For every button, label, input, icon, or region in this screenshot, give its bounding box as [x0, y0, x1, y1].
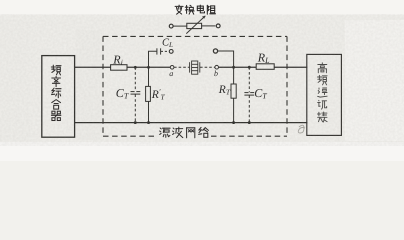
wire: node b to R_L — [219, 66, 257, 68]
terminal circle left (above node a) — [169, 50, 173, 54]
dashed box: filter network boundary — [103, 36, 287, 136]
resistor R_i — [111, 65, 127, 71]
terminal circle: switch resistor right — [216, 24, 220, 28]
wire: R_i to node a — [127, 66, 171, 68]
node b (open circle) — [215, 65, 219, 69]
block: HF transmitter box — [307, 54, 342, 135]
crystal resonator (plate, hatched body, plate) — [190, 61, 200, 74]
label 滤波网络 — [160, 128, 170, 137]
label 高频遥讯装 (vertical) — [318, 63, 327, 73]
variable resistor body (换接电阻) — [187, 23, 202, 28]
junction dots R_T prime — [147, 66, 150, 69]
dashed wire: crystal to node b — [200, 66, 215, 68]
terminal circle right (above node b) — [213, 49, 217, 53]
wire: top rail from synthesizer to R_i — [75, 66, 111, 68]
block: frequency synthesizer box — [42, 56, 75, 138]
junction dots C_T left — [134, 66, 137, 69]
node a (open circle) — [170, 66, 174, 70]
wire: right terminal L-shape down to rail — [218, 51, 234, 67]
scan paper background — [0, 0, 404, 161]
wire from variable resistor — [202, 25, 216, 27]
junction dots C_T right — [248, 66, 251, 69]
resistor R_L — [256, 64, 274, 70]
junction dots R_T — [232, 66, 235, 69]
arrow across variable resistor — [186, 16, 205, 34]
terminal circle: switch resistor left — [169, 24, 173, 28]
wire: bottom rail — [75, 122, 308, 124]
scan smudge mark — [298, 125, 305, 133]
capacitor C_T (right) branch, dashed leads — [244, 67, 254, 122]
resistor R&#39;_T branch — [146, 67, 151, 122]
dashed wire: node a to crystal — [174, 66, 189, 68]
label 频率综合器 (vertical) — [51, 65, 61, 75]
wire: R_L to HF box — [274, 66, 307, 68]
wire to variable resistor — [173, 25, 187, 27]
resistor R_T branch — [231, 67, 236, 122]
capacitor C_L branch riser and plates — [149, 48, 169, 67]
capacitor C_T (left) branch, dashed leads — [131, 67, 141, 122]
label 变换电阻 — [175, 5, 183, 14]
